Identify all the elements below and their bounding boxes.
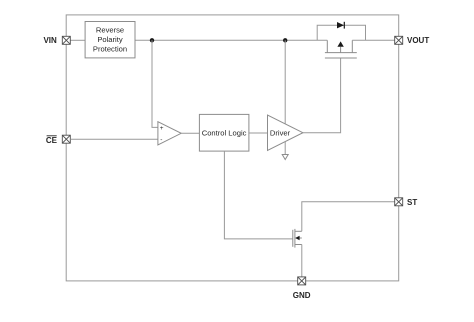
wire NMOS source to GND pin xyxy=(301,245,303,277)
NMOS body arrow xyxy=(295,236,300,241)
NMOS status transistor xyxy=(293,229,302,248)
svg-text:-: - xyxy=(160,136,162,143)
driver ground arrow xyxy=(282,142,288,160)
junction dot: comparator supply tap xyxy=(150,38,154,42)
driver buffer xyxy=(268,115,303,150)
IC boundary box xyxy=(66,15,399,281)
wire VIN pin to reverse polarity protection xyxy=(70,39,85,41)
svg-text:Control Logic: Control Logic xyxy=(202,129,247,138)
wire PMOS right stub to VOUT pin xyxy=(352,39,394,41)
wire VIN rail: RPP output to PMOS left stub xyxy=(135,39,327,41)
wire junction to comparator plus input xyxy=(152,40,158,127)
pin VIN xyxy=(62,36,70,44)
svg-text:Driver: Driver xyxy=(270,129,291,138)
svg-text:CE: CE xyxy=(46,136,58,145)
pin VOUT xyxy=(395,36,403,44)
control logic block xyxy=(199,114,249,151)
svg-text:Protection: Protection xyxy=(93,45,127,54)
wire CE pin to comparator minus input xyxy=(70,138,158,140)
CE label with overline xyxy=(46,136,58,145)
svg-text:ST: ST xyxy=(407,198,417,207)
junction dot: driver supply tap xyxy=(283,38,287,42)
svg-text:Reverse: Reverse xyxy=(96,26,124,35)
wire control logic bottom to NMOS gate xyxy=(224,151,292,239)
svg-text:VOUT: VOUT xyxy=(407,36,429,45)
body diode over PMOS xyxy=(317,22,365,41)
wire comparator output to control logic xyxy=(181,132,199,134)
wire driver output to PMOS gate xyxy=(303,58,341,133)
svg-text:+: + xyxy=(160,125,164,132)
wire NMOS drain to ST pin xyxy=(302,202,395,232)
pin GND xyxy=(298,277,306,285)
PMOS body arrow xyxy=(337,41,343,46)
wire junction to driver top xyxy=(284,40,286,123)
svg-text:Polarity: Polarity xyxy=(97,35,123,44)
comparator buffer xyxy=(158,122,181,145)
wire control logic to driver xyxy=(249,132,268,134)
pin ST xyxy=(395,198,403,206)
PMOS pass transistor xyxy=(325,40,357,58)
pin CE xyxy=(62,135,70,143)
svg-text:VIN: VIN xyxy=(43,36,57,45)
svg-text:GND: GND xyxy=(293,291,311,300)
reverse polarity protection block xyxy=(85,22,135,58)
